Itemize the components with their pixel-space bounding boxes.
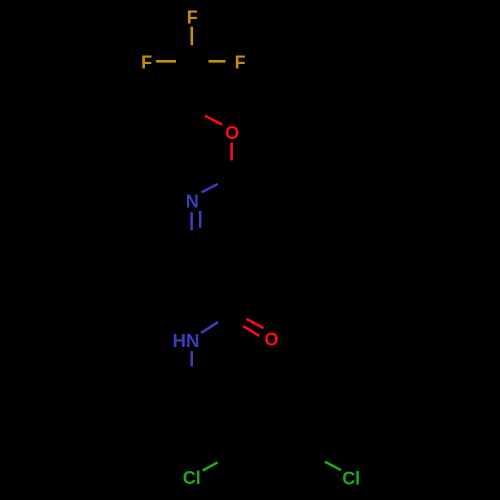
bond C-Cl1 left (green half) (203, 462, 218, 470)
bond C2-N1 pyridine (blue half) (201, 184, 217, 192)
svg-text:F: F (141, 53, 152, 73)
bond N2-CH2 benzyl (blue half) (190, 351, 193, 367)
fluorine F3 label (right of CF3) (235, 53, 246, 73)
chlorine Cl2 right label (342, 469, 360, 489)
bond CH2-O ether (red half) (205, 116, 222, 125)
double bond C8=O2 carbonyl main line (red half) (247, 319, 264, 328)
svg-text:N: N (186, 192, 199, 212)
svg-text:F: F (235, 53, 246, 73)
svg-text:F: F (187, 8, 198, 28)
bond C8-N2 amide (blue half) (201, 322, 218, 333)
bond C7-F2 (gold half) (156, 60, 176, 63)
bond C7-F3 (gold half) (209, 60, 226, 63)
oxygen O1 ether label (225, 123, 239, 143)
fluorine F1 label (top of CF3) (187, 8, 198, 28)
svg-text:O: O (225, 123, 239, 143)
chlorine Cl1 left label (183, 468, 201, 488)
oxygen O2 carbonyl label (264, 330, 278, 350)
svg-text:Cl: Cl (342, 469, 360, 489)
fluorine F2 label (left of CF3) (141, 53, 152, 73)
svg-text:Cl: Cl (183, 468, 201, 488)
double bond N1=C6 inner line (blue half) (199, 211, 202, 228)
bond O1-C2 pyridine (red half) (230, 143, 233, 161)
bond C7-F1 (gold half) (191, 27, 194, 46)
bond C-Cl2 right (green half) (325, 462, 341, 470)
nitrogen N2 amide HN label (173, 331, 200, 351)
double bond N1=C6 main line (blue half) (190, 212, 193, 230)
nitrogen N1 pyridine label (186, 192, 199, 212)
svg-text:HN: HN (173, 331, 200, 351)
svg-text:O: O (264, 330, 278, 350)
double bond C8=O2 carbonyl inner line (red half) (243, 326, 260, 336)
